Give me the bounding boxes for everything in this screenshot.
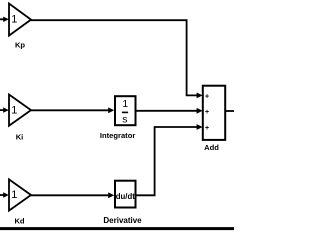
integrator fraction bar bbox=[122, 112, 128, 114]
wire Kp to Add bbox=[31, 20, 198, 95]
svg-text:s: s bbox=[122, 113, 127, 125]
arrowhead into Add port 2 bbox=[197, 108, 203, 114]
svg-text:Kp: Kp bbox=[15, 41, 25, 50]
svg-text:+: + bbox=[205, 109, 209, 116]
adder block Add bbox=[203, 86, 225, 140]
svg-text:du/dt: du/dt bbox=[116, 192, 135, 201]
arrowhead into Kd bbox=[3, 192, 9, 197]
arrowhead into Derivative bbox=[108, 192, 114, 198]
wire Kd to Derivative bbox=[31, 194, 110, 196]
arrowhead into Add port 1 bbox=[197, 93, 203, 99]
svg-text:Add: Add bbox=[204, 143, 219, 152]
wire Ki to Integrator bbox=[31, 109, 110, 111]
svg-text:+: + bbox=[205, 125, 209, 132]
wire input stub to Kp bbox=[0, 18, 5, 20]
svg-text:Kd: Kd bbox=[14, 217, 24, 226]
arrowhead into Add port 3 bbox=[197, 124, 203, 130]
svg-text:1: 1 bbox=[11, 104, 17, 116]
gain Kp bbox=[9, 4, 31, 36]
bottom window border bar bbox=[0, 227, 234, 230]
arrowhead into Integrator bbox=[108, 107, 114, 113]
svg-text:Ki: Ki bbox=[16, 133, 24, 142]
svg-text:1: 1 bbox=[122, 98, 128, 110]
gain Ki bbox=[9, 95, 31, 126]
wire input stub to Kd bbox=[0, 194, 5, 196]
svg-text:+: + bbox=[205, 94, 209, 101]
wire Integrator to Add bbox=[136, 110, 198, 112]
svg-text:1: 1 bbox=[11, 189, 17, 201]
wire input stub to Ki bbox=[0, 109, 5, 111]
derivative block bbox=[115, 181, 136, 208]
arrowhead into Ki bbox=[3, 107, 9, 112]
wire Derivative to Add bbox=[136, 127, 198, 195]
svg-text:Derivative: Derivative bbox=[103, 216, 142, 225]
arrowhead into Kp bbox=[3, 17, 9, 22]
svg-text:1: 1 bbox=[11, 14, 17, 26]
gain Kd bbox=[9, 179, 31, 210]
svg-text:Integrator: Integrator bbox=[100, 131, 135, 140]
wire Add output bbox=[225, 110, 235, 112]
integrator block bbox=[115, 96, 136, 125]
